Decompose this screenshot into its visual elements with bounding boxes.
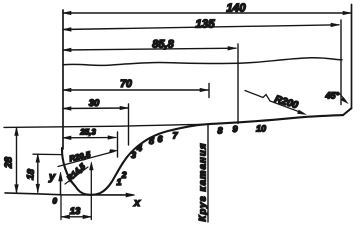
- label 135: [195, 19, 215, 31]
- svg-text:Круг катания: Круг катания: [198, 143, 209, 221]
- chamfer 45 deg: [343, 108, 351, 115]
- leader R14.5: [65, 167, 88, 184]
- label R14.5: [65, 161, 87, 183]
- dimension 140: [63, 11, 351, 15]
- rim break wavy line: [63, 58, 342, 66]
- svg-text:y: y: [48, 171, 56, 183]
- dimension 70: [63, 88, 208, 92]
- extension line 135: [340, 20, 342, 105]
- svg-text:10: 10: [256, 124, 266, 134]
- label R20.5: [68, 150, 91, 164]
- label Krug kataniya: [198, 143, 209, 221]
- svg-text:18: 18: [25, 168, 37, 180]
- svg-text:13: 13: [70, 206, 81, 217]
- label 30: [89, 98, 100, 109]
- leader 45 deg: [340, 94, 348, 104]
- extension line 30: [128, 104, 130, 145]
- label 18: [25, 168, 37, 180]
- svg-text:135: 135: [195, 19, 215, 31]
- label 70: [120, 78, 132, 90]
- leader R200: [245, 91, 306, 115]
- svg-text:140: 140: [226, 3, 246, 15]
- svg-text:R200: R200: [273, 94, 299, 112]
- x axis: [5, 193, 135, 197]
- left extension line (inner face datum): [62, 10, 64, 149]
- dimension 25.3: [63, 136, 116, 140]
- svg-text:25,3: 25,3: [79, 128, 96, 137]
- label 28: [4, 156, 15, 169]
- svg-text:9: 9: [233, 124, 238, 134]
- extension line 13 left: [60, 196, 62, 220]
- rolling circle line: [207, 124, 209, 222]
- wheel profile: flange and tread: [62, 115, 343, 195]
- dimension 85.8: [63, 47, 236, 52]
- label 13: [70, 206, 81, 217]
- label 45deg: [325, 91, 340, 101]
- svg-text:45°: 45°: [325, 91, 340, 101]
- label 25.3: [79, 128, 96, 137]
- label origin 0: [53, 197, 58, 206]
- label 140: [226, 3, 246, 15]
- svg-text:5: 5: [149, 136, 155, 146]
- svg-text:3: 3: [131, 150, 136, 160]
- dimension 135: [63, 23, 339, 31]
- y axis: [59, 172, 63, 195]
- svg-text:6: 6: [158, 134, 164, 144]
- curve point labels 1-10: [117, 124, 267, 188]
- right extension line (outer face, 140): [351, 5, 353, 109]
- svg-text:7: 7: [173, 131, 179, 141]
- leader R20.5: [58, 150, 118, 167]
- dimension 13: [62, 215, 92, 219]
- extension line 85.8: [237, 44, 239, 124]
- extension line 70 (rolling circle tick): [208, 84, 210, 98]
- svg-text:R14,5: R14,5: [65, 161, 87, 183]
- svg-text:28: 28: [4, 156, 15, 169]
- label R200: [273, 94, 299, 112]
- svg-text:0: 0: [53, 197, 58, 206]
- flange height extension line (28 top): [4, 124, 207, 127]
- dimension 28: [15, 128, 19, 193]
- svg-text:70: 70: [120, 78, 132, 90]
- svg-text:30: 30: [89, 98, 100, 109]
- svg-text:8: 8: [218, 126, 223, 136]
- svg-text:85,8: 85,8: [152, 39, 174, 51]
- label y: [48, 171, 56, 183]
- extension line 25.3: [117, 132, 119, 157]
- flange tip extension line (13 right): [90, 162, 94, 220]
- dimension 18: [33, 154, 62, 192]
- svg-text:2: 2: [121, 170, 127, 180]
- dimension 30: [63, 106, 128, 110]
- label x: [133, 197, 141, 209]
- label 85.8: [152, 39, 174, 51]
- svg-text:x: x: [133, 197, 141, 209]
- svg-text:4: 4: [136, 143, 142, 153]
